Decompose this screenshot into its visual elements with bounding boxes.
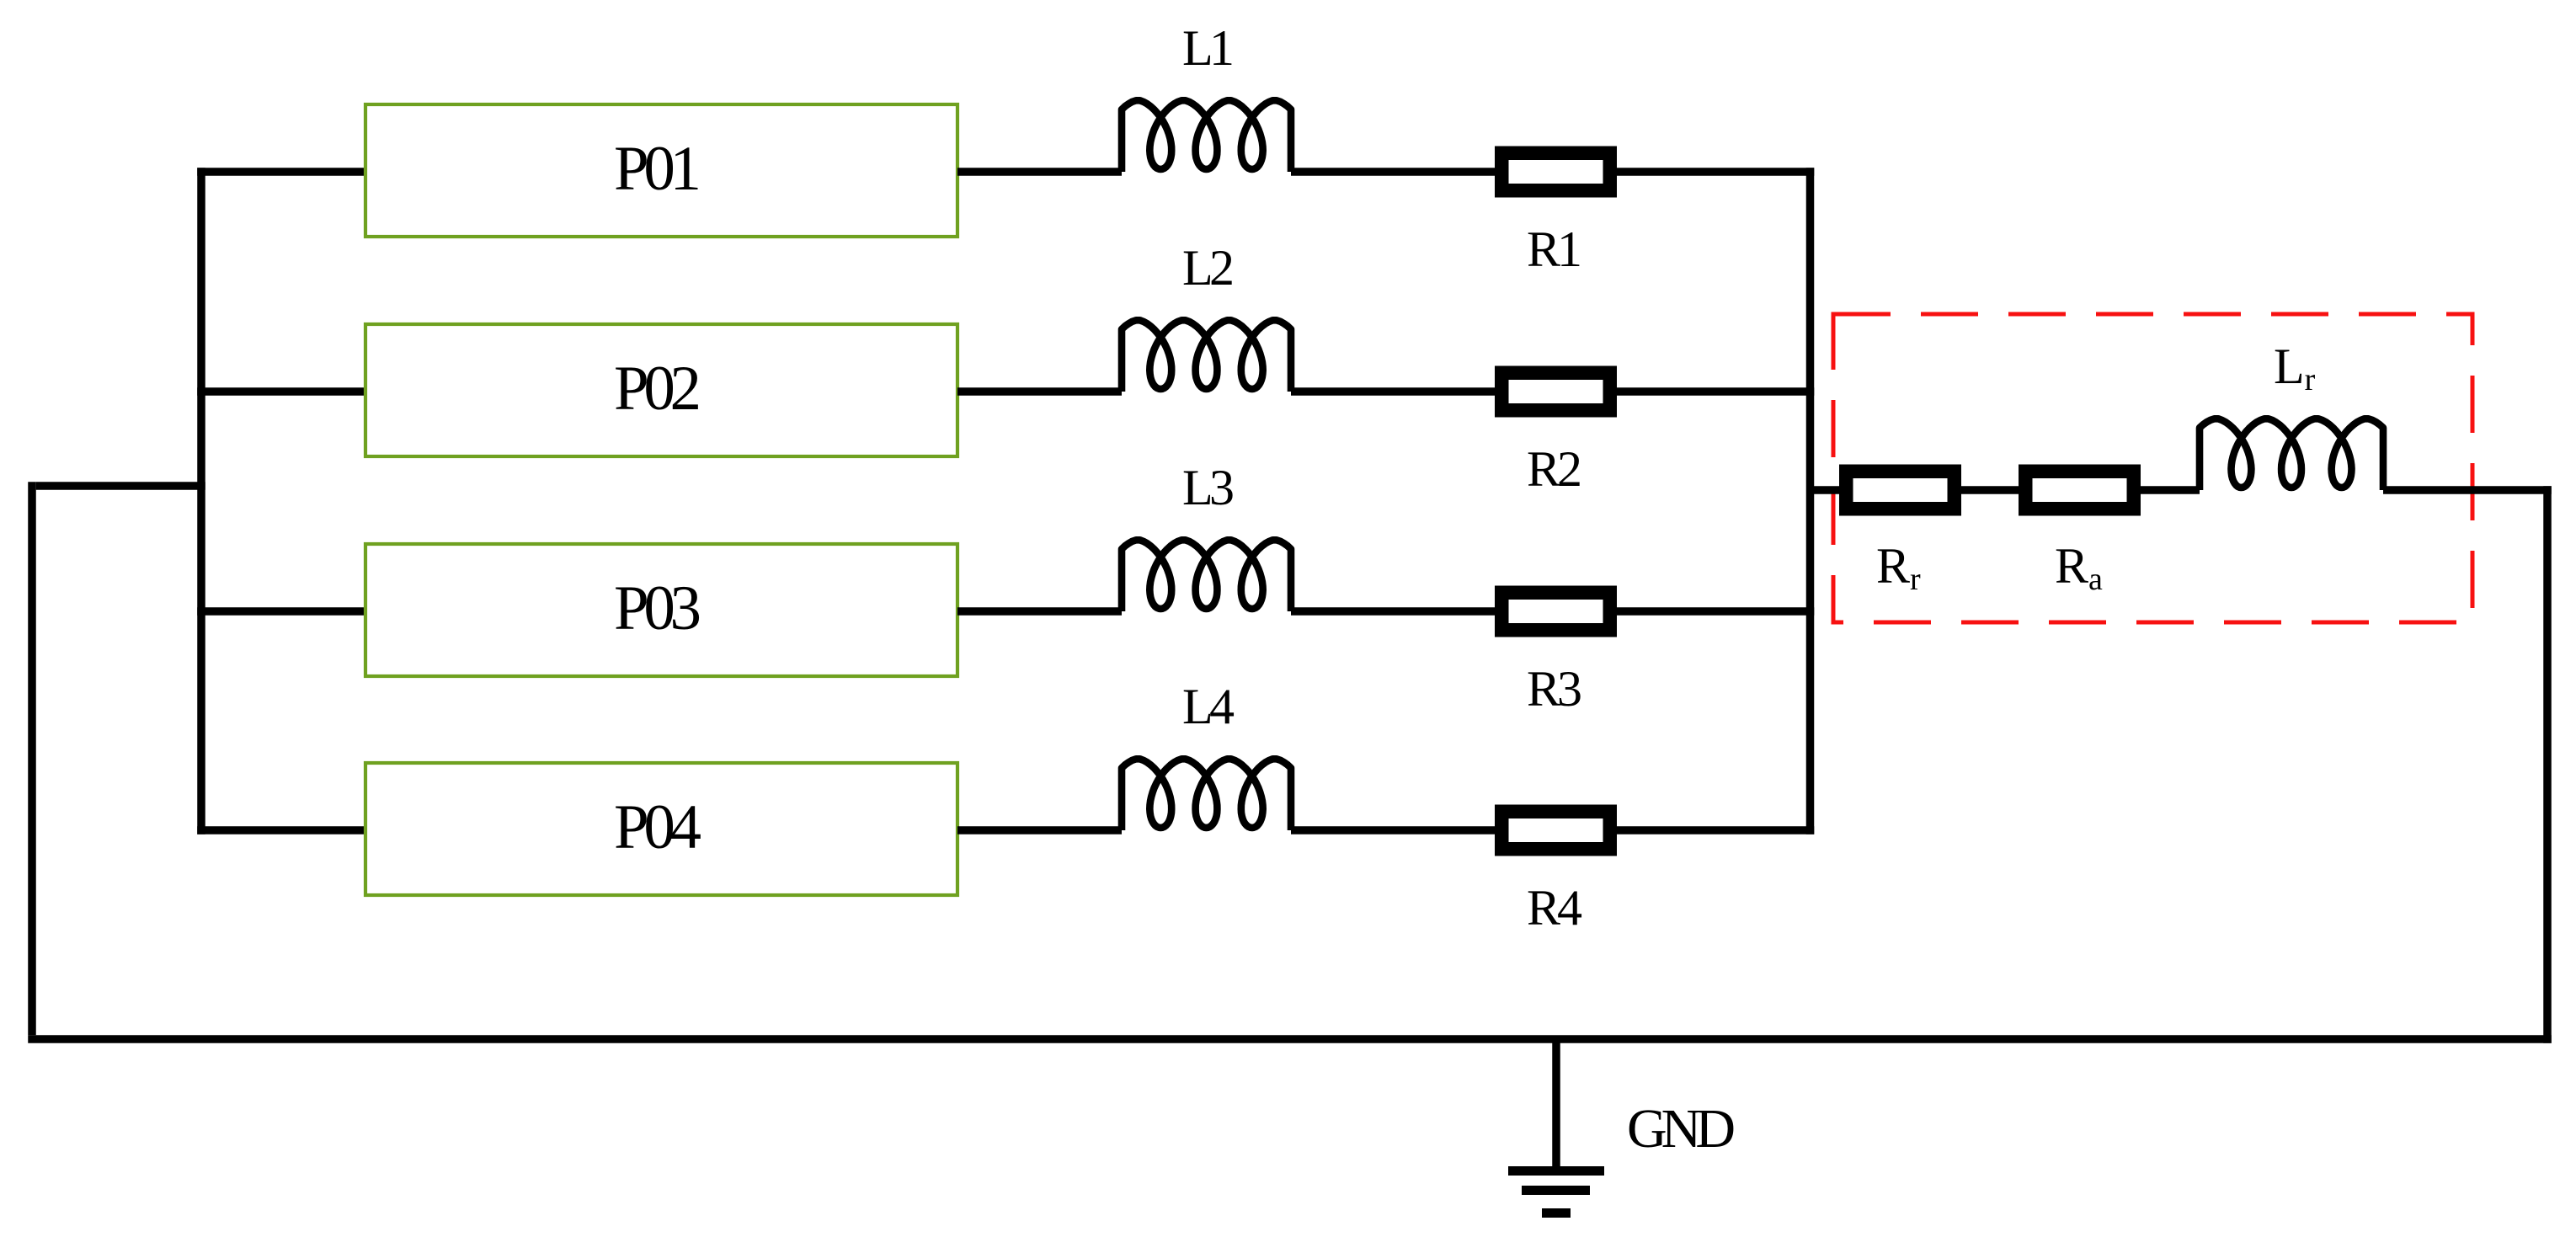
inductor L2: [1122, 320, 1291, 392]
wire: L2 to R2: [1291, 387, 1495, 396]
resistor Ra: [2025, 472, 2134, 509]
svg-text:GND: GND: [1627, 1098, 1736, 1160]
inductor Lr: [2200, 419, 2383, 490]
left inner bus vertical wire: [197, 168, 205, 834]
wire: bottom return: [28, 1035, 2552, 1043]
wire: bus to P03 input: [197, 607, 365, 616]
wire: right vertical from Lr output down to bottom: [2543, 486, 2552, 1043]
piezo block P01 (green box): [365, 104, 957, 237]
piezo block P04 (green box): [365, 763, 957, 895]
wire: R3 to right bus: [1617, 607, 1814, 616]
svg-text:R1: R1: [1527, 221, 1582, 277]
svg-text:P03: P03: [614, 573, 701, 643]
wire: bus to Rr: [1811, 486, 1840, 494]
wire: Ra to Lr: [2141, 486, 2200, 494]
wire: L1 to R1: [1291, 168, 1495, 176]
svg-text:L3: L3: [1182, 460, 1235, 515]
wire: L3 to R3: [1291, 607, 1495, 616]
resistor R4: [1501, 812, 1610, 850]
wire: bus to P02 input: [197, 387, 365, 396]
ground GND: [1508, 1039, 1604, 1213]
svg-text:P02: P02: [614, 354, 701, 424]
wire: P01 output to L1: [957, 168, 1122, 176]
wire: Rr to Ra: [1961, 486, 2019, 494]
wire: R4 to right bus: [1617, 826, 1814, 834]
piezo block P03 (green box): [365, 544, 957, 676]
svg-text:L1: L1: [1182, 20, 1235, 76]
svg-text:P01: P01: [614, 134, 701, 204]
wire: P03 output to L3: [957, 607, 1122, 616]
svg-text:R3: R3: [1527, 661, 1582, 717]
wire: Lr to right vertical: [2383, 486, 2552, 494]
inductor L4: [1122, 759, 1291, 830]
wire: bus to P04 input: [197, 826, 365, 834]
wire: P02 output to L2: [957, 387, 1122, 396]
wire: mid output from outer-left vertical to inner bus: [36, 482, 205, 490]
red dashed box (radiation load): [1833, 314, 2472, 622]
inductor L1: [1122, 100, 1291, 172]
svg-text:R2: R2: [1527, 441, 1582, 497]
resistor Rr: [1846, 472, 1955, 509]
resistor R2: [1501, 373, 1610, 411]
svg-text:P04: P04: [614, 792, 701, 862]
wire: P04 output to L4: [957, 826, 1122, 834]
wire: R2 to right bus: [1617, 387, 1814, 396]
resistor R3: [1501, 593, 1610, 631]
wire: L4 to R4: [1291, 826, 1495, 834]
svg-text:L4: L4: [1182, 679, 1235, 734]
inductor L3: [1122, 540, 1291, 611]
svg-text:L2: L2: [1182, 240, 1235, 296]
wire: bus to P01 input: [197, 168, 365, 176]
piezo block P02 (green box): [365, 324, 957, 456]
wire: outer left vertical: [28, 482, 36, 1035]
wire: R1 to right bus: [1617, 168, 1814, 176]
right collector bus vertical wire: [1806, 168, 1815, 834]
svg-text:R4: R4: [1527, 880, 1582, 936]
resistor R1: [1501, 153, 1610, 191]
